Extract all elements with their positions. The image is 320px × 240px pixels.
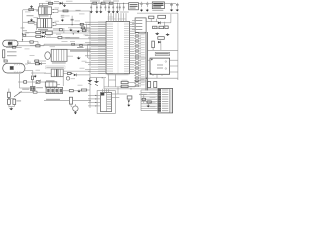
inductor L2: [106, 2, 108, 5]
wire y78.2: [140, 77, 178, 79]
node dot x8.9: [8, 98, 9, 99]
wire y63.7 c: [42, 63, 46, 65]
coil L-V stadium: [3, 63, 25, 73]
wire top connecting: [39, 2, 46, 4]
wire y11 rail: [58, 10, 90, 12]
wire T1 out join: [54, 8, 58, 10]
wire T1 in vertical 2: [42, 3, 44, 7]
resistor R16: [12, 46, 15, 48]
node dot y78: [146, 78, 147, 79]
resistor R33 vertical: [148, 82, 151, 88]
resistor R13: [36, 35, 41, 37]
capacitor C12: [170, 3, 173, 8]
IC5 bottom stubs: [152, 74, 154, 76]
wire row2: [26, 36, 36, 38]
node dot A: [22, 33, 23, 34]
connector CN1 side text: [170, 90, 171, 113]
IC6 box: [101, 93, 112, 112]
label x78 y85: [78, 84, 83, 87]
wire top rail left: [46, 2, 88, 4]
wire vert x32.4: [31, 80, 33, 87]
coil L-H hatch: [8, 40, 11, 41]
resistor R10: [82, 29, 85, 32]
connector J1 3cell box: [45, 82, 57, 87]
wire vert x177.9: [177, 13, 179, 80]
wire x87.7 seg: [87, 44, 89, 58]
label above 3cell: [46, 80, 55, 81]
label y10: [76, 9, 81, 12]
label near CN1: [139, 94, 147, 95]
wire yoke2 top out: [25, 63, 28, 65]
IC1 jungle box: [106, 22, 130, 74]
resistor R30: [158, 15, 166, 18]
wire bus y45.5: [30, 45, 106, 47]
label strip box: [46, 66, 66, 69]
transformer T1 pins: [37, 9, 54, 13]
label x72 y31: [72, 31, 77, 34]
resistor R11: [58, 36, 62, 38]
node dots under IC: [102, 77, 103, 78]
diode D2: [42, 31, 45, 34]
connector CN1 pin pads: [158, 89, 168, 111]
wire x118 vert: [117, 87, 119, 94]
wire C1 right: [34, 21, 37, 23]
resistor R19 vertical: [32, 76, 34, 80]
wire r27 right: [128, 82, 135, 84]
resistor R8: [81, 27, 84, 29]
wire verts right top: [156, 19, 158, 22]
label between: [39, 15, 49, 16]
label x84 y34: [84, 34, 89, 37]
regulator IC2 box: [152, 2, 164, 9]
resistor R22 vertical: [13, 99, 16, 104]
diode D4: [39, 62, 41, 65]
resistor R31: [158, 37, 165, 40]
wire vert x21.7: [21, 41, 24, 43]
wire relay right: [52, 32, 106, 34]
label x66 y78: [71, 77, 76, 80]
transformer T2 pins: [34, 22, 54, 26]
label top small: [54, 0, 59, 3]
wire y51.5: [70, 51, 88, 53]
wire T4 out1: [63, 70, 90, 72]
connector CN1 divider: [169, 89, 171, 113]
wire y82 b: [27, 81, 37, 83]
ground G12: [9, 107, 13, 110]
wire after D5: [77, 74, 90, 76]
IC1 inner divider: [117, 23, 119, 73]
ground G20: [147, 105, 150, 108]
IC5 left stubs: [147, 59, 150, 61]
label R27: [122, 79, 128, 82]
resistor R34 vertical: [154, 82, 157, 88]
wire r25 right: [87, 89, 90, 91]
capacitor C4 box: [4, 60, 7, 62]
label x70 y41: [70, 40, 75, 43]
diode D8 vertical: [128, 100, 130, 102]
IC5 pin1 mark: [151, 59, 153, 61]
wire y27.9: [68, 27, 90, 29]
wire T1 in vertical 1: [38, 3, 40, 7]
coil L-V hatch: [13, 64, 16, 65]
wires above IC6: [104, 86, 135, 88]
IC1 top pins: [109, 13, 126, 21]
label x80 y13: [79, 13, 85, 16]
IC5 dark corner: [150, 73, 152, 75]
ground G3: [63, 4, 66, 7]
transformer T3 small: [31, 87, 36, 91]
diode D3: [42, 35, 45, 38]
label x56 y33: [56, 33, 61, 36]
ground G21: [127, 104, 130, 107]
capacitor C2: [71, 18, 74, 21]
ground G2: [30, 19, 33, 22]
label x34 y17: [34, 16, 39, 19]
wire under ic joins: [109, 79, 116, 81]
wire vert x19.5: [19, 74, 21, 88]
wire bus y44.2: [44, 43, 106, 45]
resistor R20 vertical: [8, 92, 11, 97]
resistor R5: [109, 2, 113, 4]
label x27 y62: [27, 61, 31, 64]
resistor array right column: [134, 33, 141, 87]
wire reg out: [164, 2, 176, 4]
label x80 y68: [80, 67, 85, 70]
wire y21.7: [146, 21, 158, 23]
resistor array labels: [140, 32, 145, 85]
potentiometer VR1 arrow: [36, 80, 42, 84]
wire y63.7: [28, 63, 35, 65]
IC4 pins and labels: [132, 20, 142, 30]
wire y37.5: [46, 37, 58, 39]
IC5 inner text: [157, 65, 163, 66]
wire r24 right: [73, 90, 77, 92]
label x66 y1: [66, 0, 73, 3]
label x62 y41: [62, 40, 68, 43]
IC6 right pins: [112, 93, 120, 95]
wire into T4: [44, 72, 51, 74]
IC5 wires right: [170, 59, 178, 61]
IC1 left pin wires: [85, 22, 106, 74]
resistor R12: [36, 31, 41, 33]
resistor R15: [36, 45, 40, 47]
label T2 pins: [55, 20, 60, 23]
wire top rail mid: [88, 2, 129, 4]
connector J2 box: [46, 88, 63, 94]
wire y82 c: [40, 81, 46, 83]
potentiometer VR1 box: [36, 81, 40, 84]
wire y86.9 stub: [57, 84, 60, 86]
wire under IC: [90, 77, 106, 79]
IC3 SIP box: [51, 49, 67, 61]
label strip text: [46, 67, 64, 68]
wire yoke1 out b: [33, 41, 38, 43]
ground G8: [61, 19, 64, 22]
label under yoke1 a: [7, 51, 17, 52]
ground G1: [30, 5, 33, 8]
regulator IC2 text: [153, 3, 163, 4]
driver T4 box: [51, 69, 63, 77]
wire C1 left: [23, 21, 28, 23]
label x68 y56: [68, 55, 74, 58]
resistor R36: [127, 96, 132, 99]
label y99: [46, 99, 60, 100]
wire bottom rail right: [137, 12, 178, 14]
wire vert x86.7: [86, 24, 88, 32]
ground G14: [77, 90, 81, 93]
capacitor C5 box: [24, 81, 27, 84]
resistor R27 under IC: [121, 81, 128, 83]
wire y100.7 right: [73, 100, 91, 102]
resistor R3: [93, 2, 97, 4]
wire x8.9 mid: [8, 97, 10, 99]
top rail junction dots: [91, 3, 125, 4]
module M1 box: [129, 3, 139, 10]
wire d6: [161, 22, 171, 24]
node dot: [72, 24, 73, 25]
wire y50.3 right: [147, 49, 178, 51]
wire y82: [18, 81, 24, 83]
resistor R1 on wire: [29, 9, 34, 11]
label x82 y61: [82, 60, 87, 63]
module M1 text: [130, 4, 138, 5]
wire x104 link: [103, 78, 105, 89]
transistor Q1 circle: [45, 52, 51, 60]
label right of T3: [36, 87, 43, 88]
capacitor C6 box: [142, 98, 145, 100]
wire j2 out: [63, 90, 70, 92]
coil L-H inner marks: [8, 42, 12, 46]
diode D7: [158, 41, 161, 44]
resistor R32 vertical: [152, 41, 155, 48]
label x25 y11: [25, 11, 31, 14]
capacitor C10 electrolytic: [140, 2, 143, 7]
node dot B: [22, 39, 23, 40]
connector CN1 wires comb: [141, 90, 158, 111]
wire T3 down: [31, 91, 33, 93]
wire y50.3: [70, 49, 90, 51]
label x50 y46: [50, 45, 56, 48]
ground G4: [140, 9, 143, 12]
wire y61 b: [39, 60, 46, 62]
IC6 top pins: [102, 89, 108, 93]
transistor Q2 circle: [66, 77, 69, 80]
resistor R21 vertical: [8, 99, 11, 104]
node dot x90: [89, 100, 90, 101]
label above relay: [53, 28, 60, 29]
wire y38.9 labelled: [58, 38, 106, 40]
wire y106.7: [8, 104, 10, 107]
wire x63.2 down: [62, 77, 64, 86]
ground G16: [87, 79, 92, 82]
resistor R24: [69, 90, 73, 92]
ground G11: [34, 75, 37, 78]
wire r26 down: [70, 104, 72, 106]
label text top-left: [27, 15, 34, 16]
ground G7: [176, 9, 179, 12]
wire cn area vert: [143, 95, 145, 98]
connector CN1 box: [158, 89, 173, 113]
ground G18: [155, 32, 159, 35]
ground G6: [170, 9, 173, 12]
IC6 outer shield box: [97, 91, 115, 114]
wire yoke1 out bottom: [16, 45, 36, 47]
wire fuse down: [3, 58, 5, 61]
wire cross: [9, 97, 14, 99]
diode D5: [74, 74, 77, 77]
resistor R29: [149, 16, 154, 19]
resistor R2 top: [49, 2, 53, 4]
relay K1 box: [45, 31, 52, 34]
resistor R35: [147, 101, 151, 103]
wire top-left horizontal: [23, 9, 39, 11]
label under regulator: [152, 10, 163, 11]
resistor R25: [81, 89, 86, 91]
component on bus 2: [80, 45, 83, 47]
IC6 rows: [107, 94, 111, 109]
IC1 right pin labels: [124, 21, 129, 73]
labels on comb: [150, 92, 156, 95]
wire to regulator: [138, 2, 152, 4]
wire yoke1 out top: [18, 41, 30, 43]
IC6 dark label: [101, 93, 104, 96]
component on bus 1: [72, 43, 75, 45]
diode D6: [158, 21, 161, 24]
wire r15 right: [40, 45, 44, 47]
label chain: [90, 0, 100, 2]
label x47 y36: [47, 35, 52, 38]
label on bus: [77, 47, 84, 48]
label x66 y15: [65, 15, 70, 18]
node dot mid: [73, 33, 74, 34]
IC1 top pin labels: [108, 18, 117, 21]
IC6 left pins: [88, 95, 101, 107]
ground row under caps: [90, 10, 119, 13]
wire y47.6: [6, 47, 12, 49]
label x25 y48: [25, 48, 30, 51]
wire x8.9 stub: [8, 89, 10, 93]
wire y94 right: [119, 93, 127, 95]
wire vertical x36.7: [36, 22, 38, 30]
transformer T2: [37, 18, 52, 27]
IC4 box top right: [135, 18, 146, 32]
resistor R7: [80, 23, 83, 25]
label box right: [155, 52, 169, 55]
connector CN1 feed bus: [140, 90, 142, 111]
inductor L1: [98, 2, 100, 5]
capacitor C1 box: [28, 21, 34, 23]
label x30 y55: [30, 54, 35, 57]
IC1 bottom pins: [109, 74, 116, 87]
label mid: [16, 100, 21, 101]
wire y61: [33, 60, 36, 62]
IC6 divider: [105, 93, 107, 112]
coil L-V inner marks: [10, 66, 14, 70]
IC1 right pin wires: [130, 22, 135, 74]
IC3 internal bars: [53, 49, 55, 61]
capacitor C13: [176, 3, 179, 8]
wire lower rail: [120, 11, 129, 13]
resistor R18: [35, 60, 39, 62]
wire yoke2 right down: [25, 70, 33, 72]
IC3 label below: [52, 62, 66, 63]
wire vert x75.5 up: [74, 104, 76, 106]
wire row1: [26, 32, 36, 34]
resistor R26 vertical: [70, 97, 73, 104]
IC1 bottom pin labels: [107, 74, 129, 77]
label c3: [25, 31, 30, 34]
wire T2 out join: [54, 22, 56, 24]
wire y37.5 b: [62, 37, 70, 39]
resistor R17: [35, 63, 39, 65]
wire vertical trunk x24: [22, 10, 24, 42]
label x45 y1: [46, 0, 52, 3]
transformer T1: [39, 7, 52, 14]
wire vert x72: [71, 16, 73, 25]
wire y73: [31, 72, 46, 74]
wire G1 stem: [31, 8, 33, 9]
label above: [22, 89, 29, 90]
label T2 below: [38, 29, 48, 30]
resistor R4: [101, 2, 105, 4]
wire column to bus: [141, 33, 146, 35]
label left small: [23, 29, 28, 32]
ground G19: [166, 33, 170, 36]
wire y88: [20, 87, 31, 89]
label x36 y70: [36, 69, 41, 72]
resistor R37 on wire: [33, 91, 37, 93]
wire vert x90 long: [89, 11, 91, 108]
label T1 pins: [55, 7, 60, 10]
IC1 left pin labels: [98, 21, 113, 73]
wire T1-T2 links: [39, 14, 41, 18]
wire y100.7: [44, 100, 70, 102]
resistor R28 under IC: [121, 85, 128, 87]
resistor R9: [59, 29, 62, 31]
capacitor C3 box: [23, 34, 26, 36]
capacitor bank C-row: [90, 3, 124, 10]
wire y24.7: [60, 24, 90, 26]
ground G10: [77, 30, 80, 33]
bus vertical double x146.5: [145, 32, 147, 91]
IC5 vertical out box: [150, 58, 170, 74]
ground G9: [69, 29, 72, 32]
label x75 y20: [75, 20, 81, 23]
wire vert x63.9: [63, 28, 65, 33]
coil L-H stadium: [3, 40, 18, 47]
capacitor C11 electrolytic: [146, 2, 149, 7]
ground G5: [146, 9, 149, 12]
label T1: [39, 5, 48, 6]
fuse F1 vertical box: [3, 50, 5, 58]
potentiometer VR2 arrow: [14, 92, 22, 97]
resistor R6: [63, 10, 68, 12]
wire y30.9: [40, 30, 90, 32]
label long y37: [65, 37, 79, 38]
wire y47.6 b: [16, 47, 22, 49]
resistor R14 on wire: [30, 41, 33, 43]
ground G17: [94, 80, 99, 83]
diode D1 top: [60, 2, 63, 5]
label small x61: [61, 14, 65, 17]
resistor R23: [68, 72, 71, 74]
wire T4 out2: [63, 73, 67, 75]
label under yoke1 b: [7, 55, 17, 56]
ground G13: [77, 57, 81, 60]
wire y49.3: [60, 48, 106, 50]
ground G15: [74, 111, 77, 114]
transistor Q3: [73, 106, 78, 111]
